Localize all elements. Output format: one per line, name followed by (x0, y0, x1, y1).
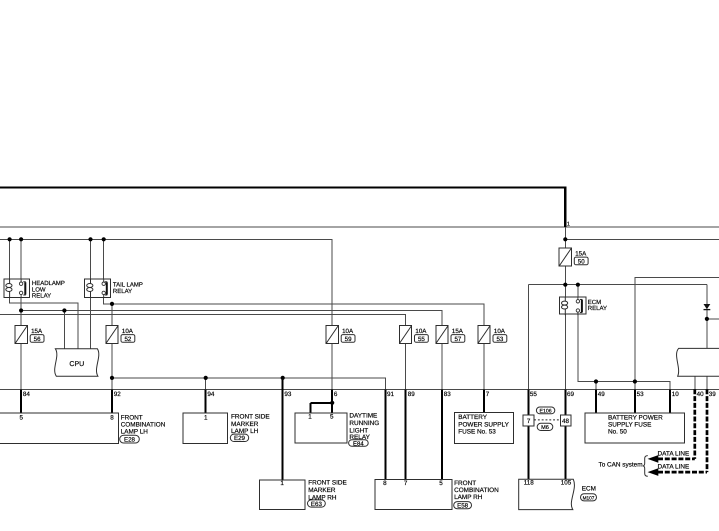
svg-text:53: 53 (496, 336, 503, 343)
svg-text:M6: M6 (541, 425, 549, 431)
svg-text:RELAY: RELAY (349, 434, 370, 441)
svg-text:39: 39 (709, 391, 717, 398)
svg-text:COMBINATION: COMBINATION (121, 421, 166, 428)
svg-text:10: 10 (672, 391, 680, 398)
svg-text:TAIL LAMP: TAIL LAMP (113, 282, 143, 289)
svg-text:LOW: LOW (32, 286, 46, 293)
svg-text:E63: E63 (311, 501, 323, 508)
svg-text:RELAY: RELAY (113, 288, 132, 295)
svg-text:MARKER: MARKER (231, 421, 259, 428)
svg-text:FRONT: FRONT (454, 480, 476, 487)
svg-text:To CAN system: To CAN system (599, 461, 643, 468)
svg-text:MARKER: MARKER (308, 487, 336, 494)
svg-text:RELAY: RELAY (588, 305, 607, 312)
svg-text:84: 84 (23, 391, 31, 398)
svg-text:53: 53 (637, 391, 645, 398)
svg-text:DAYTIME: DAYTIME (349, 413, 377, 420)
svg-text:8: 8 (110, 414, 114, 421)
svg-text:1: 1 (567, 222, 570, 228)
svg-text:118: 118 (524, 480, 535, 487)
svg-text:HEADLAMP: HEADLAMP (32, 280, 65, 287)
svg-text:10A: 10A (415, 328, 427, 335)
svg-text:M107: M107 (583, 496, 595, 501)
svg-text:55: 55 (418, 336, 425, 343)
svg-text:91: 91 (387, 391, 395, 398)
svg-text:5: 5 (330, 414, 334, 421)
svg-text:49: 49 (598, 391, 606, 398)
svg-text:56: 56 (34, 336, 41, 343)
svg-text:69: 69 (567, 391, 575, 398)
svg-text:89: 89 (408, 391, 416, 398)
svg-text:ECM: ECM (582, 486, 596, 493)
svg-text:7: 7 (527, 418, 531, 425)
svg-text:FRONT SIDE: FRONT SIDE (308, 480, 347, 487)
svg-text:6: 6 (334, 391, 338, 398)
svg-text:15A: 15A (452, 328, 464, 335)
svg-text:15A: 15A (31, 328, 43, 335)
svg-text:1: 1 (204, 414, 208, 421)
svg-text:FUSE No. 53: FUSE No. 53 (458, 428, 496, 435)
svg-text:RELAY: RELAY (32, 292, 51, 299)
svg-text:FRONT: FRONT (121, 414, 143, 421)
svg-text:CPU: CPU (69, 361, 84, 368)
svg-text:POWER SUPPLY: POWER SUPPLY (458, 421, 509, 428)
svg-text:E84: E84 (353, 440, 364, 447)
svg-text:7: 7 (404, 480, 408, 487)
svg-text:1: 1 (280, 480, 284, 487)
svg-text:ECM: ECM (588, 299, 601, 306)
svg-text:DATA LINE: DATA LINE (658, 464, 690, 471)
svg-text:SUPPLY FUSE: SUPPLY FUSE (608, 421, 651, 428)
svg-text:59: 59 (345, 336, 352, 343)
svg-text:E106: E106 (540, 409, 552, 415)
svg-text:LAMP RH: LAMP RH (308, 494, 337, 501)
svg-text:7: 7 (486, 391, 490, 398)
svg-text:1: 1 (308, 414, 312, 421)
svg-text:40: 40 (697, 391, 705, 398)
svg-text:105: 105 (561, 480, 572, 487)
svg-text:10A: 10A (122, 328, 134, 335)
svg-text:15A: 15A (575, 251, 587, 258)
svg-text:94: 94 (207, 391, 215, 398)
svg-text:LAMP LH: LAMP LH (121, 429, 149, 436)
svg-text:92: 92 (114, 391, 122, 398)
svg-text:E28: E28 (124, 436, 136, 443)
svg-text:5: 5 (439, 480, 443, 487)
svg-text:8: 8 (383, 480, 387, 487)
svg-text:57: 57 (454, 336, 461, 343)
svg-text:LAMP LH: LAMP LH (231, 428, 259, 435)
svg-text:55: 55 (530, 391, 538, 398)
svg-text:LAMP RH: LAMP RH (454, 494, 483, 501)
svg-text:No. 50: No. 50 (608, 429, 627, 436)
svg-text:BATTERY POWER: BATTERY POWER (608, 414, 663, 421)
svg-text:10A: 10A (342, 328, 354, 335)
svg-text:83: 83 (444, 391, 452, 398)
svg-text:E29: E29 (234, 435, 246, 442)
svg-text:50: 50 (578, 259, 585, 266)
svg-text:52: 52 (124, 336, 131, 343)
svg-text:48: 48 (562, 418, 570, 425)
svg-text:DATA LINE: DATA LINE (658, 450, 690, 457)
svg-text:E58: E58 (457, 503, 469, 510)
svg-text:5: 5 (19, 414, 23, 421)
svg-text:BATTERY: BATTERY (458, 414, 488, 421)
svg-text:10A: 10A (494, 328, 506, 335)
svg-text:FRONT SIDE: FRONT SIDE (231, 414, 270, 421)
svg-text:RUNNING: RUNNING (349, 420, 379, 427)
svg-text:93: 93 (284, 391, 292, 398)
